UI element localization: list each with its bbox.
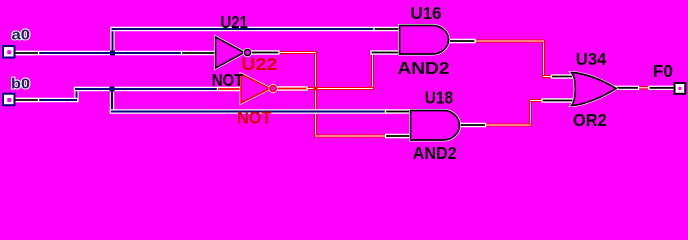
svg-text:a0: a0 (12, 27, 31, 44)
svg-text:U18: U18 (425, 88, 454, 108)
svg-text:AND2: AND2 (413, 143, 457, 163)
svg-text:b0: b0 (11, 76, 30, 93)
svg-text:U21: U21 (220, 12, 248, 32)
svg-text:AND2: AND2 (398, 58, 450, 78)
svg-text:OR2: OR2 (573, 110, 607, 130)
svg-text:F0: F0 (653, 61, 673, 81)
svg-text:U16: U16 (411, 3, 442, 23)
svg-text:NOT: NOT (212, 70, 244, 90)
svg-text:NOT: NOT (237, 108, 272, 128)
svg-text:U22: U22 (241, 54, 277, 74)
svg-text:U34: U34 (576, 49, 607, 69)
